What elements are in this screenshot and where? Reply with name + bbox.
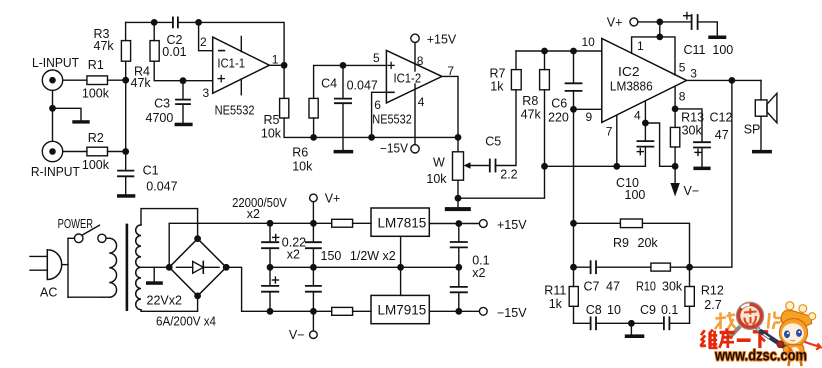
- wire plug to switch and xfmr: [62, 238, 102, 297]
- terminal V+ raw: [310, 191, 341, 223]
- resistor R4 47k: [131, 22, 213, 90]
- svg-text:LM7815: LM7815: [378, 215, 427, 230]
- capacitor 0.22 bottom: [306, 267, 321, 311]
- node B junction: [122, 148, 129, 155]
- transformer T1 secondary 22Vx2: [136, 225, 182, 310]
- svg-text:47: 47: [606, 279, 620, 293]
- junction V- R13: [672, 163, 679, 170]
- capacitor 22000u bottom: [262, 267, 278, 311]
- svg-text:100k: 100k: [82, 158, 110, 172]
- svg-text:V+: V+: [325, 191, 341, 205]
- svg-text:R12: R12: [701, 283, 724, 297]
- junction output: [729, 77, 736, 84]
- wire LM7915 out: [429, 310, 479, 312]
- svg-text:C5: C5: [485, 135, 501, 149]
- junction bridge right: [223, 264, 230, 271]
- wire output down to R5: [283, 65, 285, 98]
- wire R jack to R2: [63, 151, 87, 153]
- svg-text:V−: V−: [684, 184, 700, 198]
- svg-text:C12: C12: [710, 110, 733, 124]
- ground C3: [175, 123, 193, 127]
- wire IC1-1 output: [269, 64, 284, 66]
- svg-text:2.7: 2.7: [704, 298, 721, 312]
- capacitor C11 100: [684, 13, 734, 58]
- mascot crown: [781, 310, 811, 327]
- svg-text:x2: x2: [247, 207, 260, 221]
- resistor R2 100k: [82, 131, 110, 172]
- svg-text:220: 220: [548, 110, 569, 124]
- V- arrow: [670, 166, 699, 198]
- svg-text:4: 4: [418, 95, 425, 109]
- svg-text:LM3886: LM3886: [610, 79, 653, 93]
- ground row3: [625, 323, 645, 338]
- svg-text:C9: C9: [640, 303, 656, 317]
- wire reg grounds: [400, 236, 402, 295]
- svg-text:C3: C3: [154, 97, 170, 111]
- svg-text:3: 3: [203, 86, 210, 100]
- wire bridge left to top rail: [169, 223, 332, 267]
- svg-text:NE5532: NE5532: [372, 112, 412, 126]
- terminal -15V out: [479, 306, 527, 320]
- svg-text:8: 8: [417, 54, 424, 68]
- node A junction: [122, 77, 129, 84]
- capacitor 0.22 top: [306, 223, 321, 267]
- svg-text:V−: V−: [289, 328, 305, 342]
- wire L jack to R1: [63, 79, 87, 81]
- svg-text:1: 1: [272, 53, 279, 67]
- node output IC1-1: [281, 62, 288, 69]
- wire pin8: [674, 86, 676, 109]
- ground SP: [752, 150, 772, 154]
- svg-text:R6: R6: [292, 146, 308, 160]
- junction cap1 bottom: [267, 308, 274, 315]
- svg-text:47: 47: [715, 128, 729, 142]
- wire IC2 output: [687, 79, 761, 81]
- svg-text:−15V: −15V: [380, 142, 409, 156]
- wire feedback row2 left: [573, 223, 575, 267]
- svg-text:0.1: 0.1: [661, 303, 678, 317]
- svg-text:SP: SP: [744, 123, 761, 137]
- svg-text:L-INPUT: L-INPUT: [32, 56, 79, 70]
- L-INPUT jack J1: [32, 56, 79, 90]
- svg-text:+15V: +15V: [427, 32, 457, 46]
- shield junction: [49, 105, 56, 112]
- svg-text:0.01: 0.01: [162, 45, 186, 59]
- capacitor 0.1 bottom: [451, 253, 490, 311]
- svg-text:x2: x2: [472, 266, 485, 280]
- junction C4 top: [340, 62, 347, 69]
- junction R8 ground: [541, 163, 548, 170]
- mascot hands: [777, 341, 784, 348]
- svg-text:20k: 20k: [638, 236, 659, 250]
- svg-text:R1: R1: [88, 58, 104, 72]
- svg-text:IC1-1: IC1-1: [217, 56, 245, 70]
- label 150 1/2W x2: [321, 249, 396, 263]
- wire pin1 pin5 bracket: [632, 37, 675, 75]
- junction row2 right: [686, 264, 693, 271]
- capacitor C4 0.047: [321, 65, 378, 149]
- svg-text:R11: R11: [544, 283, 566, 297]
- ground C4: [334, 150, 354, 154]
- wire center tap: [141, 266, 169, 268]
- svg-text:22Vx2: 22Vx2: [147, 293, 182, 307]
- junction bridge left: [166, 264, 173, 271]
- regulator LM7915: [371, 295, 429, 323]
- junction pin1-5 bracket: [656, 34, 663, 41]
- mascot red tail: [804, 342, 821, 350]
- svg-text:+15V: +15V: [497, 218, 527, 232]
- wire C2 to corner: [178, 22, 284, 65]
- junction row2 left: [570, 264, 577, 271]
- junction pot top: [455, 134, 462, 141]
- junction cap1 top: [267, 220, 274, 227]
- terminal +15V opamp: [411, 32, 457, 46]
- junction C6 top: [570, 48, 577, 55]
- char xia: [753, 332, 768, 348]
- svg-text:6: 6: [374, 98, 381, 112]
- junction above R4: [151, 19, 158, 26]
- wire pin8 to +15V: [414, 43, 416, 71]
- junction pin4 C10: [642, 120, 649, 127]
- svg-text:C8: C8: [586, 303, 602, 317]
- junction pin9: [570, 106, 577, 113]
- svg-text:R8: R8: [522, 94, 538, 108]
- junction V+: [656, 19, 663, 26]
- capacitor C12 47: [694, 110, 732, 166]
- mascot body: [786, 345, 804, 360]
- wire shield to ground: [53, 108, 82, 120]
- svg-text:NE5532: NE5532: [215, 103, 255, 117]
- char wei: [700, 330, 717, 348]
- svg-text:2: 2: [200, 35, 207, 49]
- wire top feedback: [126, 21, 173, 23]
- wire V+ to C11: [638, 21, 692, 23]
- bridge rectifier 6A/200V x4: [156, 239, 226, 329]
- svg-text:10k: 10k: [292, 160, 313, 174]
- mascot pen: [755, 328, 793, 354]
- junction +15: [455, 220, 462, 227]
- junction cap1 mid: [267, 264, 274, 271]
- svg-text:30k: 30k: [682, 123, 703, 137]
- resistor 150 top: [332, 219, 371, 227]
- ground C1: [117, 194, 135, 198]
- junction R6 bottom: [310, 134, 317, 141]
- wire output to speaker: [760, 80, 762, 100]
- wire jack shells vertical: [52, 90, 54, 141]
- junction R8 top: [541, 48, 548, 55]
- resistor R1 100k: [82, 58, 110, 101]
- power amp IC2 LM3886: [602, 38, 687, 122]
- wire pin6: [372, 92, 387, 137]
- wire mid rail: [270, 266, 459, 268]
- svg-text:8: 8: [679, 90, 686, 104]
- svg-text:−15V: −15V: [497, 306, 527, 320]
- svg-text:150: 150: [321, 249, 342, 263]
- resistor R8 47k: [521, 51, 550, 166]
- svg-text:IC1-2: IC1-2: [394, 72, 422, 86]
- watermark magnifier with xin character: [730, 302, 764, 337]
- wire pin2: [199, 22, 213, 50]
- svg-text:10k: 10k: [261, 127, 282, 141]
- capacitor C7 47: [574, 261, 651, 293]
- svg-text:3: 3: [690, 67, 697, 81]
- resistor R7 1k: [490, 51, 522, 94]
- svg-text:R13: R13: [681, 110, 704, 124]
- svg-text:R7: R7: [490, 67, 506, 81]
- capacitor C1 0.047: [118, 164, 178, 195]
- svg-text:0.047: 0.047: [347, 78, 378, 92]
- capacitor C6 220: [548, 51, 582, 124]
- speaker SP: [744, 93, 777, 150]
- junction 0.1 mid: [455, 264, 462, 271]
- switch POWER: [58, 217, 106, 243]
- svg-text:1k: 1k: [549, 297, 563, 311]
- wire secondary bottom to bridge: [141, 296, 198, 311]
- watermark pian character: [768, 312, 782, 330]
- capacitor C8 10: [574, 303, 632, 329]
- svg-text:5: 5: [373, 51, 380, 65]
- wire bridge right to bottom rail: [226, 267, 332, 311]
- resistor R13 30k: [670, 109, 704, 166]
- capacitor 0.1 top: [451, 224, 467, 268]
- svg-text:100: 100: [625, 188, 646, 202]
- capacitor C9 0.1: [631, 303, 689, 329]
- terminal +15V out: [479, 218, 527, 232]
- wire V+ down to pins: [659, 22, 661, 37]
- junction pin7 ground: [613, 163, 620, 170]
- svg-text:R-INPUT: R-INPUT: [31, 165, 80, 179]
- wire feedback from output: [690, 80, 732, 267]
- svg-text:R5: R5: [264, 113, 280, 127]
- capacitor C5 2.2: [485, 135, 517, 182]
- junction R9 left: [570, 220, 577, 227]
- capacitor C10 100: [616, 123, 653, 202]
- capacitor C3 4700: [146, 81, 191, 125]
- junction pin6: [368, 134, 375, 141]
- mascot head: [780, 319, 808, 347]
- junction pin2 drop: [195, 19, 202, 26]
- op-amp IC1-1 NE5532: [213, 37, 270, 118]
- svg-text:POWER: POWER: [58, 217, 93, 231]
- svg-text:LM7915: LM7915: [378, 303, 427, 318]
- svg-text:4: 4: [634, 109, 641, 123]
- resistor R11 1k: [544, 267, 578, 323]
- ground input: [72, 120, 89, 123]
- transformer core: [126, 225, 129, 310]
- svg-text:1: 1: [637, 39, 644, 53]
- svg-text:10: 10: [582, 35, 596, 49]
- resistor R10 30k: [636, 263, 690, 293]
- char ku: [719, 328, 734, 348]
- resistor R6 10k: [292, 98, 318, 173]
- svg-text:x2: x2: [287, 247, 300, 261]
- wire R5 bottom rail: [284, 118, 458, 137]
- junction pin8: [672, 106, 679, 113]
- wire pin4: [644, 101, 646, 123]
- svg-text:30k: 30k: [662, 279, 683, 293]
- R-INPUT jack J2: [31, 141, 80, 179]
- wire IC1-2 output pin7: [442, 76, 458, 137]
- wire R1 to node A: [108, 79, 126, 81]
- ground C12: [693, 167, 710, 171]
- svg-text:2.2: 2.2: [500, 168, 517, 182]
- op-amp IC1-2 NE5532: [372, 50, 442, 126]
- svg-text:6A/200V x4: 6A/200V x4: [156, 315, 216, 329]
- svg-text:R2: R2: [88, 131, 104, 145]
- junction cap2 top: [310, 220, 317, 227]
- resistor 150 bottom: [332, 307, 371, 315]
- label 22000/50V: [232, 196, 287, 221]
- terminal V- raw: [289, 311, 317, 342]
- svg-text:1/2W x2: 1/2W x2: [350, 249, 396, 263]
- svg-text:R9: R9: [613, 236, 629, 250]
- svg-text:V+: V+: [607, 15, 623, 29]
- svg-text:10: 10: [607, 303, 621, 317]
- wire C5 to R7: [496, 90, 517, 166]
- wire pin7: [616, 115, 618, 166]
- wire pin4 to -15V: [414, 84, 416, 145]
- char yi: [737, 338, 751, 342]
- svg-text:10k: 10k: [426, 172, 447, 186]
- svg-text:7: 7: [606, 125, 613, 139]
- junction row3 ground: [628, 320, 635, 327]
- svg-text:AC: AC: [40, 285, 57, 299]
- svg-text:100: 100: [712, 43, 733, 57]
- svg-text:C1: C1: [143, 164, 159, 178]
- wire R6 top to pin5: [314, 65, 387, 137]
- svg-text:R10: R10: [636, 279, 656, 293]
- wire secondary top to bridge: [141, 209, 198, 239]
- ground center tap: [146, 267, 163, 285]
- regulator LM7815: [371, 208, 429, 236]
- wire node A to node B to C1: [125, 80, 127, 170]
- wire pot ground to R8 bottom: [458, 166, 545, 198]
- transformer T1 primary: [102, 238, 117, 297]
- svg-text:C11: C11: [684, 43, 706, 57]
- junction C3 tap: [180, 77, 187, 84]
- junction bridge top: [194, 235, 201, 242]
- svg-text:0.047: 0.047: [146, 179, 177, 193]
- capacitor C2 0.01: [162, 17, 186, 59]
- junction cap2 bottom: [310, 308, 317, 315]
- resistor R9 20k: [574, 219, 690, 267]
- mascot cartoon: [755, 302, 820, 366]
- potentiometer W 10k: [426, 137, 489, 198]
- AC plug: [30, 250, 62, 300]
- svg-text:C4: C4: [321, 76, 337, 90]
- svg-text:9: 9: [586, 110, 593, 124]
- svg-text:4700: 4700: [146, 111, 174, 125]
- resistor R3 47k: [94, 22, 131, 80]
- junction pot ground: [455, 195, 462, 202]
- ground W: [445, 198, 471, 211]
- label 0.22 x2: [282, 235, 306, 261]
- wire ground run: [545, 165, 646, 167]
- wire pin9: [574, 108, 602, 110]
- svg-text:47k: 47k: [94, 39, 115, 53]
- junction cap2 mid: [310, 264, 317, 271]
- junction -15: [455, 308, 462, 315]
- wire pin8 to C12: [675, 109, 702, 142]
- svg-text:47k: 47k: [131, 76, 152, 90]
- resistor R12 2.7: [685, 267, 724, 323]
- svg-text:C7: C7: [584, 279, 600, 293]
- mascot legs: [789, 360, 802, 367]
- wire R2 to node B: [108, 151, 126, 153]
- wire LM7815 out: [429, 223, 479, 225]
- svg-text:www.dzsc.com: www.dzsc.com: [714, 348, 807, 365]
- svg-text:100k: 100k: [82, 87, 110, 101]
- svg-text:W: W: [433, 155, 445, 169]
- terminal V+: [607, 15, 638, 29]
- watermark zhao character: [715, 312, 737, 329]
- svg-text:5: 5: [679, 60, 686, 74]
- logo text weikuyixia: [700, 328, 768, 348]
- svg-text:IC2: IC2: [618, 65, 640, 79]
- svg-text:C6: C6: [551, 96, 567, 110]
- svg-text:1k: 1k: [490, 80, 504, 94]
- mascot eyes: [784, 330, 790, 338]
- capacitor 22000u top: [262, 223, 279, 267]
- junction reg mid: [397, 264, 404, 271]
- wire pin10 rail: [516, 50, 602, 52]
- terminal -15V opamp: [380, 142, 419, 156]
- wire pin4 jog to V-: [645, 123, 675, 166]
- resistor R5 10k: [261, 98, 289, 140]
- ground C11: [708, 36, 726, 40]
- wire C6 down to feedback: [573, 109, 575, 223]
- junction bridge bottom: [194, 293, 201, 300]
- svg-text:47k: 47k: [521, 107, 542, 121]
